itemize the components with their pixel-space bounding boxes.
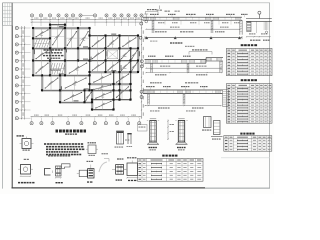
beam elevation 3 dimension line xyxy=(144,105,221,111)
plan top dimension line 1 xyxy=(31,19,144,20)
beam elevation 1 girder xyxy=(143,17,243,20)
top right section symbol xyxy=(144,14,148,23)
beam elevation 3 stirrups xyxy=(144,90,221,93)
plan stair hatch 2 xyxy=(50,63,66,74)
beam elevation 1 left bracket annotation xyxy=(146,6,180,15)
plan center annotation cluster xyxy=(43,49,63,59)
plan subtitle text xyxy=(65,133,77,135)
beam elevation 2 girder xyxy=(145,58,224,64)
plan slab diagonals xyxy=(17,6,273,184)
plan beam grid vertical xyxy=(33,25,139,110)
beam elevation 1 dimension line xyxy=(145,27,240,30)
table title xyxy=(240,133,254,135)
plan right dimension line xyxy=(141,26,144,119)
table title xyxy=(241,44,257,46)
table title xyxy=(162,155,177,157)
column elevation detail 1 xyxy=(147,119,159,151)
beam elevation 3 girder xyxy=(143,90,223,94)
plan stair hatch 1 xyxy=(34,39,50,47)
sheet bottom border dark segment xyxy=(12,187,206,189)
beam elevation 1 dim text lower xyxy=(155,31,225,32)
beam elevation 1 stirrups xyxy=(144,18,241,20)
plan top dimension line 2 xyxy=(31,22,144,23)
bracket and beam-shoe details 3-3 xyxy=(45,155,71,183)
beam elevation 2 bracket annotation xyxy=(189,49,212,54)
table grid xyxy=(224,136,272,152)
small detail right of column elevations xyxy=(202,117,211,131)
title strip table top-left xyxy=(3,3,13,26)
table grid xyxy=(138,158,204,181)
beam elevation 2 rebar annotations xyxy=(148,56,191,57)
section detail 1-1 xyxy=(77,161,94,183)
beam elevation 2 stirrups xyxy=(146,60,206,63)
table grid xyxy=(226,84,272,124)
plan title text xyxy=(56,130,87,133)
section detail 4-4 xyxy=(125,157,141,181)
plan bottom dimension line xyxy=(31,115,142,118)
table cell text xyxy=(138,160,201,181)
plan secondary beams xyxy=(42,25,129,110)
table grid xyxy=(226,48,272,75)
beam elevation 2 dimension line xyxy=(145,66,222,76)
plan left dimension line 1 xyxy=(21,26,22,120)
sheet bottom border light segment xyxy=(205,187,270,189)
column elevation detail 2 xyxy=(175,119,187,151)
misc small marks left of bottom table xyxy=(102,153,110,161)
plan left axis bubbles xyxy=(15,26,30,119)
section detail 2-2 xyxy=(112,158,126,180)
beam elevation 1 supports xyxy=(152,20,154,33)
sheet outer border top xyxy=(3,2,271,4)
plan columns xyxy=(32,24,139,111)
top axis connector line xyxy=(82,14,94,16)
column detail mid dimension xyxy=(167,120,174,141)
plan left dimension line 2 xyxy=(24,26,25,120)
plan top axis bubbles xyxy=(30,14,143,26)
beam elevation 3 right end column hatched xyxy=(223,90,229,107)
sheet inner border left xyxy=(11,3,13,189)
plan beam labels xyxy=(34,26,140,101)
beam elevation 1 rebar annotations xyxy=(150,14,248,17)
schematic beam line with supports xyxy=(139,36,242,47)
plan left dimension text xyxy=(22,30,25,116)
plan elevator shaft xyxy=(107,50,118,59)
notes text block xyxy=(44,143,84,155)
table cell text xyxy=(227,85,271,123)
beam elevation 1 under-beam annotations xyxy=(158,20,239,24)
plan bottom axis bubbles xyxy=(30,118,141,125)
plan top dimension text xyxy=(34,17,140,20)
top-right section detail xyxy=(246,11,272,41)
beam elevation 3 rebar annotations xyxy=(146,82,208,90)
sheet outer border right xyxy=(269,3,271,189)
beam elevation 3 supports xyxy=(148,94,150,105)
beam elevation 2 left axis bubbles xyxy=(140,60,143,68)
small column detail far right lower xyxy=(211,121,223,140)
small bar detail far right of notes xyxy=(127,133,133,147)
small detail above notes xyxy=(86,142,98,156)
column section detail KZ1 xyxy=(17,135,34,151)
beam elevation 1 left axis bubble xyxy=(140,17,143,25)
plan bay rebar marks xyxy=(17,6,273,184)
table cell text xyxy=(225,137,271,151)
table title xyxy=(241,79,257,81)
sheet outer border left xyxy=(2,3,4,189)
plan beam grid horizontal xyxy=(33,25,138,111)
beam elevation 2 supports xyxy=(151,63,153,72)
plan scale mark box xyxy=(138,125,148,132)
table cell text xyxy=(227,50,271,75)
beam elevation 3 left axis bubbles xyxy=(140,90,143,98)
faint rule under table 3 xyxy=(221,157,270,159)
faint curve mark xyxy=(99,162,107,172)
column section detail 2 bottom-left xyxy=(18,159,34,184)
small vertical detail right of notes xyxy=(115,131,130,148)
